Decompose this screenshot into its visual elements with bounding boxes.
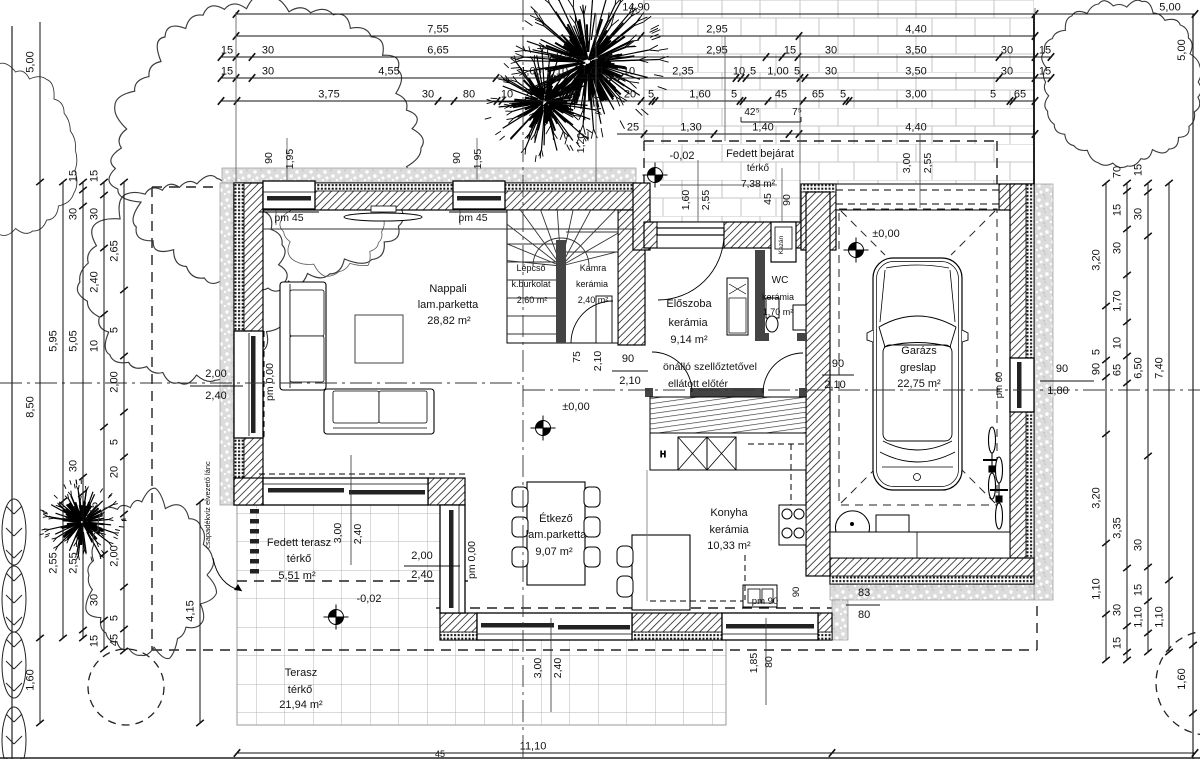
wall living south-west corner piece	[234, 478, 263, 505]
svg-text:30: 30	[262, 66, 274, 78]
svg-text:pm 0,00: pm 0,00	[264, 363, 276, 401]
svg-text:pm 0,00: pm 0,00	[466, 541, 478, 579]
pier living south	[428, 478, 465, 505]
pier dining south-west	[440, 613, 477, 640]
kitchen counter dashed	[650, 444, 806, 601]
pier garage front	[801, 184, 836, 250]
svg-text:Előszoba: Előszoba	[666, 298, 712, 310]
wall garage NE corner	[999, 184, 1034, 210]
sofa L-shape living room	[280, 282, 434, 434]
svg-text:5: 5	[109, 327, 121, 333]
svg-text:2,55: 2,55	[48, 552, 60, 573]
svg-text:Nappali: Nappali	[429, 283, 466, 295]
svg-text:5: 5	[109, 439, 121, 445]
partition WC south	[755, 333, 769, 341]
svg-text:kerámia: kerámia	[576, 279, 608, 289]
svg-text:5: 5	[648, 89, 654, 101]
svg-text:-0,02: -0,02	[356, 593, 381, 605]
svg-text:45: 45	[109, 634, 121, 646]
svg-text:42⁵: 42⁵	[744, 107, 759, 118]
svg-text:6,50: 6,50	[1133, 357, 1145, 378]
svg-text:2,35: 2,35	[672, 66, 693, 78]
svg-text:90: 90	[791, 587, 802, 598]
wall entry (north of hall)	[644, 222, 801, 248]
svg-text:30: 30	[89, 208, 101, 220]
south eaves dashed	[436, 607, 832, 609]
tree big cloud top-left	[109, 0, 423, 291]
svg-text:1,40: 1,40	[752, 122, 773, 134]
garage box	[876, 515, 909, 532]
svg-text:10: 10	[623, 66, 635, 78]
svg-text:3,35: 3,35	[1112, 517, 1124, 538]
svg-text:1,20: 1,20	[575, 133, 587, 154]
dimension line R1	[233, 2, 1198, 18]
covered terrace roof edge dashed	[237, 580, 468, 582]
svg-text:4,15: 4,15	[185, 600, 197, 621]
svg-text:térkő: térkő	[747, 163, 770, 174]
tree lobe lower-left	[77, 176, 287, 385]
window south kitchen	[722, 613, 818, 640]
svg-text:90: 90	[832, 358, 844, 370]
svg-text:Lépcső: Lépcső	[516, 263, 545, 273]
axis line vertical	[522, 0, 524, 759]
wall garage south	[830, 558, 1034, 584]
partition hall/kitchen	[645, 250, 807, 397]
svg-text:10: 10	[556, 66, 568, 78]
svg-text:csapadékvíz elvezető lánc: csapadékvíz elvezető lánc	[203, 461, 212, 549]
dimension line right A	[1091, 180, 1110, 663]
svg-text:2,55: 2,55	[700, 190, 712, 211]
witness lines top	[236, 8, 1035, 222]
level marker terrace	[324, 605, 349, 630]
bushes bottom-left column	[2, 499, 26, 759]
svg-text:5,00: 5,00	[1176, 39, 1188, 60]
kitchen lower cabinets	[650, 433, 806, 470]
svg-text:1,00: 1,00	[520, 66, 541, 78]
svg-text:9,14 m²: 9,14 m²	[670, 334, 708, 346]
svg-text:1,10: 1,10	[1154, 606, 1166, 627]
tree cloud top-right	[1042, 0, 1200, 167]
svg-text:5,05: 5,05	[68, 330, 80, 351]
svg-text:1,60: 1,60	[1176, 668, 1188, 689]
svg-text:45: 45	[775, 89, 787, 101]
svg-text:±0,00: ±0,00	[872, 228, 899, 240]
tree dark burst top-center	[589, 69, 591, 91]
tree cloud left-bottom	[86, 488, 217, 658]
svg-text:25: 25	[627, 122, 639, 134]
svg-text:65: 65	[1112, 364, 1124, 376]
kitchen sink unit	[743, 585, 777, 607]
door hall->kitchen swing	[652, 352, 692, 392]
radiator lens below north wall	[344, 206, 422, 221]
svg-text:20: 20	[109, 466, 121, 478]
svg-text:15: 15	[1039, 66, 1051, 78]
terrace tiled area	[237, 504, 726, 725]
svg-text:1,60: 1,60	[25, 669, 37, 690]
svg-text:3,20: 3,20	[1091, 487, 1103, 508]
svg-text:80: 80	[463, 89, 475, 101]
svg-text:önálló szellőztetővel: önálló szellőztetővel	[663, 361, 757, 373]
svg-text:22,75 m²: 22,75 m²	[897, 378, 941, 390]
garage counter	[830, 532, 1010, 558]
svg-text:11,10: 11,10	[520, 741, 547, 753]
svg-text:H: H	[660, 450, 666, 459]
svg-text:3,50: 3,50	[905, 45, 926, 57]
stipple band garage right	[1034, 184, 1053, 600]
svg-text:15: 15	[68, 170, 80, 182]
svg-text:30: 30	[68, 208, 80, 220]
svg-text:3,20: 3,20	[1091, 249, 1103, 270]
svg-text:3,50: 3,50	[905, 66, 926, 78]
svg-text:5,00: 5,00	[25, 51, 37, 72]
svg-text:15: 15	[89, 170, 101, 182]
svg-text:1,95: 1,95	[284, 149, 296, 170]
garage ceiling dashed rectangle	[839, 209, 997, 505]
svg-text:2,00: 2,00	[109, 545, 121, 566]
property line left	[11, 26, 13, 759]
svg-text:1,70 m²: 1,70 m²	[763, 307, 794, 317]
dining table	[527, 482, 585, 585]
entry door + swing	[657, 222, 724, 300]
svg-text:90: 90	[1056, 363, 1068, 375]
dimension line left E	[109, 179, 128, 654]
insulation band top wall	[234, 183, 636, 191]
svg-text:1,00: 1,00	[767, 66, 788, 78]
svg-text:10: 10	[501, 89, 513, 101]
kitchen stove	[779, 505, 806, 545]
svg-text:30: 30	[825, 66, 837, 78]
svg-text:kerámia: kerámia	[709, 524, 749, 536]
svg-text:Fedett terasz: Fedett terasz	[267, 537, 331, 549]
svg-text:65: 65	[1014, 89, 1026, 101]
svg-text:15: 15	[221, 45, 233, 57]
svg-text:4,55: 4,55	[378, 66, 399, 78]
door WC swing	[763, 353, 803, 393]
svg-text:7,55: 7,55	[427, 24, 448, 36]
svg-text:4,40: 4,40	[905, 122, 926, 134]
svg-text:Terasz: Terasz	[285, 667, 317, 679]
svg-text:7,38 m²: 7,38 m²	[741, 179, 776, 190]
stair closet door	[596, 296, 612, 343]
svg-text:45: 45	[435, 749, 445, 759]
svg-text:10,33 m²: 10,33 m²	[707, 540, 751, 552]
svg-text:80: 80	[858, 609, 870, 621]
svg-text:2,40: 2,40	[552, 658, 564, 679]
svg-text:pm 60: pm 60	[994, 372, 1005, 398]
svg-text:75: 75	[571, 351, 583, 363]
tree scribble detail	[280, 195, 384, 277]
drawing bottom edge	[0, 757, 1200, 759]
svg-text:2,55: 2,55	[922, 153, 934, 174]
dimension line left C	[68, 170, 87, 641]
dimension line left 4,15	[185, 499, 204, 726]
window garage east pm60	[1010, 358, 1034, 412]
svg-text:WC: WC	[772, 275, 789, 286]
dimension line R6	[617, 122, 1038, 138]
wall south-east corner	[818, 613, 832, 640]
svg-text:lam.parketta: lam.parketta	[418, 299, 479, 311]
svg-text:2,40: 2,40	[352, 524, 364, 545]
svg-text:5: 5	[731, 89, 737, 101]
covered entry dashed outline	[644, 141, 997, 222]
svg-text:5: 5	[750, 66, 756, 78]
car	[867, 258, 968, 490]
svg-text:7,40: 7,40	[1154, 357, 1166, 378]
svg-text:10: 10	[733, 66, 745, 78]
svg-text:28,82 m²: 28,82 m²	[427, 315, 471, 327]
hall cabinet	[727, 278, 748, 335]
dimension line R3	[218, 45, 1054, 61]
sliding door south dining	[477, 613, 632, 640]
svg-text:1,10: 1,10	[1091, 578, 1103, 599]
property line right	[1192, 14, 1194, 759]
wall kitchen/garage	[806, 192, 830, 576]
svg-text:5,00: 5,00	[1159, 2, 1180, 14]
dimension line R2	[233, 24, 1038, 40]
roof overhang dashed outline left/bottom	[152, 141, 1037, 650]
svg-text:-0,02: -0,02	[669, 150, 694, 162]
svg-text:30: 30	[68, 460, 80, 472]
tree dark burst left-middle	[83, 506, 86, 517]
dimension line R4	[218, 66, 1054, 82]
svg-text:1,30: 1,30	[680, 122, 701, 134]
partition hall/WC	[755, 250, 765, 340]
svg-text:2,10: 2,10	[592, 351, 604, 372]
svg-text:3,00: 3,00	[532, 658, 544, 679]
svg-text:30: 30	[1133, 208, 1145, 220]
dimension line right C	[1133, 164, 1152, 655]
svg-text:45: 45	[762, 193, 774, 205]
svg-text:3,00: 3,00	[905, 89, 926, 101]
wall top (north, living)	[234, 183, 636, 210]
svg-text:3,75: 3,75	[318, 89, 339, 101]
svg-text:2,40: 2,40	[411, 569, 432, 581]
svg-text:1,10: 1,10	[1133, 606, 1145, 627]
window west (living)	[234, 331, 264, 438]
stipple render band along top wall	[222, 168, 636, 183]
svg-text:lam.parketta: lam.parketta	[526, 529, 587, 541]
svg-text:5,95: 5,95	[48, 330, 60, 351]
dining chairs	[512, 487, 600, 567]
svg-text:3,00: 3,00	[901, 153, 913, 174]
svg-text:65: 65	[812, 89, 824, 101]
svg-text:2,40: 2,40	[205, 390, 226, 402]
window north pm45 #2	[453, 181, 505, 209]
svg-text:15: 15	[1133, 164, 1145, 176]
svg-text:1,70: 1,70	[1112, 290, 1124, 311]
svg-text:2,60: 2,60	[559, 89, 580, 101]
svg-text:2,40: 2,40	[89, 271, 101, 292]
svg-text:pm 45: pm 45	[458, 212, 487, 224]
svg-text:15: 15	[1112, 637, 1124, 649]
WC toilet	[766, 298, 779, 332]
svg-text:30: 30	[1001, 66, 1013, 78]
dashed tree circle bottom-right	[1156, 631, 1200, 735]
svg-text:30: 30	[89, 594, 101, 606]
kitchen floor edge	[646, 470, 648, 601]
svg-text:kerámia: kerámia	[762, 292, 794, 302]
axis line horizontal	[0, 382, 523, 384]
svg-text:±0,00: ±0,00	[562, 401, 589, 413]
svg-text:30: 30	[1133, 539, 1145, 551]
svg-text:kerámia: kerámia	[668, 317, 708, 329]
svg-text:1,00: 1,00	[581, 66, 602, 78]
svg-text:pm 90: pm 90	[752, 596, 778, 607]
kitchen table	[632, 535, 690, 610]
svg-text:30: 30	[1112, 604, 1124, 616]
svg-text:2,60 m²: 2,60 m²	[517, 295, 548, 305]
svg-text:Kamra: Kamra	[580, 263, 607, 273]
svg-text:80: 80	[763, 656, 775, 668]
svg-text:3,00: 3,00	[332, 523, 344, 544]
kitchen upper cabinet hatched band	[650, 397, 806, 433]
dimension line left B	[48, 179, 67, 641]
svg-text:83: 83	[858, 587, 870, 599]
svg-text:2,00: 2,00	[109, 371, 121, 392]
svg-text:térkő: térkő	[288, 684, 312, 696]
svg-text:1,95: 1,95	[472, 149, 484, 170]
level marker hall/stairs	[531, 416, 556, 441]
svg-text:15: 15	[1112, 204, 1124, 216]
svg-text:90: 90	[263, 152, 275, 164]
dimension line R5	[218, 89, 1038, 105]
svg-text:6,65: 6,65	[427, 45, 448, 57]
svg-text:2,00: 2,00	[411, 550, 432, 562]
coffee table	[355, 315, 403, 363]
window north pm45 #1	[263, 181, 315, 209]
svg-text:4,40: 4,40	[905, 24, 926, 36]
svg-text:pm 45: pm 45	[274, 212, 303, 224]
svg-text:greslap: greslap	[900, 362, 936, 374]
level marker garage	[844, 238, 869, 263]
lintel line below north wall	[263, 228, 636, 230]
svg-text:10: 10	[1112, 337, 1124, 349]
wall garage east	[1010, 184, 1034, 584]
svg-text:1,85: 1,85	[748, 653, 760, 674]
svg-text:30: 30	[1112, 242, 1124, 254]
svg-text:5: 5	[1091, 349, 1103, 355]
svg-text:7⁵: 7⁵	[792, 107, 802, 118]
paving edge line	[1033, 14, 1035, 184]
svg-text:70: 70	[1112, 166, 1124, 178]
svg-text:20: 20	[624, 89, 636, 101]
wall left (west)	[234, 183, 263, 505]
stipple band left wall	[220, 183, 234, 505]
svg-text:2,95: 2,95	[706, 45, 727, 57]
dimension line right B	[1112, 166, 1131, 663]
wall south pier between windows	[632, 613, 722, 640]
svg-text:2,65: 2,65	[109, 240, 121, 261]
paved forecourt brick pattern	[644, 0, 1034, 141]
svg-text:30: 30	[825, 45, 837, 57]
stipple strip kitchen SE	[832, 600, 848, 640]
corner window west (dining)	[440, 505, 465, 613]
svg-text:5,51 m²: 5,51 m²	[278, 570, 316, 582]
dashed tree circle bottom-left	[88, 649, 164, 725]
svg-text:15: 15	[89, 635, 101, 647]
svg-text:90: 90	[1091, 363, 1103, 375]
svg-text:Étkező: Étkező	[539, 512, 573, 525]
wall stair east / entry step	[618, 210, 645, 345]
svg-text:90: 90	[622, 353, 634, 365]
svg-text:10: 10	[89, 340, 101, 352]
svg-text:30: 30	[262, 45, 274, 57]
dimension line left D	[89, 170, 108, 652]
svg-text:Fedett bejárat: Fedett bejárat	[726, 148, 794, 160]
svg-text:5: 5	[109, 615, 121, 621]
svg-text:2,40 m²: 2,40 m²	[578, 295, 609, 305]
svg-text:2,10: 2,10	[824, 379, 845, 391]
svg-text:9,07 m²: 9,07 m²	[535, 546, 573, 558]
svg-text:k.burkolat: k.burkolat	[511, 279, 551, 289]
svg-text:2,10: 2,10	[619, 375, 640, 387]
sliding door south living	[259, 474, 468, 505]
svg-text:Kazán: Kazán	[778, 235, 785, 254]
svg-text:30: 30	[1001, 45, 1013, 57]
dimension line bottom	[234, 741, 1198, 757]
dimension line left A	[25, 22, 44, 726]
svg-text:90: 90	[781, 194, 793, 206]
dimension line right D	[1154, 180, 1173, 655]
svg-text:15: 15	[1133, 584, 1145, 596]
level marker entry	[643, 163, 668, 188]
boiler Kazan niche	[771, 222, 796, 262]
svg-text:21,94 m²: 21,94 m²	[279, 699, 323, 711]
garage workbench circle	[836, 511, 870, 532]
svg-text:14,90: 14,90	[622, 2, 650, 14]
svg-text:5: 5	[990, 89, 996, 101]
svg-text:Konyha: Konyha	[710, 507, 748, 519]
svg-text:1,60: 1,60	[689, 89, 710, 101]
stipple band garage bottom	[830, 584, 1034, 600]
stair center wall	[556, 240, 566, 343]
svg-text:1,80: 1,80	[1047, 385, 1068, 397]
svg-text:ellátott előtér: ellátott előtér	[668, 378, 729, 390]
insulation band south wall	[440, 632, 832, 640]
svg-text:15: 15	[1039, 45, 1051, 57]
rainwater chain symbols	[250, 509, 259, 574]
svg-text:5: 5	[840, 89, 846, 101]
svg-text:90: 90	[451, 152, 463, 164]
svg-text:15: 15	[89, 502, 101, 514]
svg-text:8,50: 8,50	[25, 396, 37, 417]
bicycles	[983, 427, 1001, 499]
svg-text:15: 15	[784, 45, 796, 57]
svg-text:térkő: térkő	[287, 553, 311, 565]
svg-text:5: 5	[794, 66, 800, 78]
svg-text:2,00: 2,00	[205, 368, 226, 380]
svg-text:1,60: 1,60	[680, 190, 692, 211]
svg-text:2,95: 2,95	[706, 24, 727, 36]
garage door opening with lintel dashes	[836, 184, 999, 210]
svg-text:Garázs: Garázs	[901, 345, 937, 357]
svg-text:15: 15	[221, 66, 233, 78]
WC basin	[793, 305, 806, 330]
svg-text:30: 30	[422, 89, 434, 101]
bush far left partial	[0, 61, 77, 237]
svg-text:2,55: 2,55	[68, 552, 80, 573]
